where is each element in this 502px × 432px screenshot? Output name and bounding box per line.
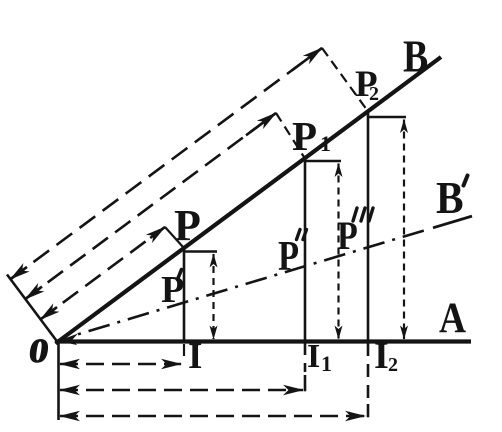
prime ticks of P''' xyxy=(353,208,357,221)
vertical I2 below-axis dashed extension xyxy=(367,343,370,402)
below-axis arrow O to I1 xyxy=(60,389,303,392)
vertical I1 extension corner xyxy=(304,375,307,391)
prime tick of P' xyxy=(178,270,182,280)
elbow to P2 xyxy=(322,48,367,110)
parallel dashed arrow L1 (O to P translate) xyxy=(40,227,165,320)
svg-text:I: I xyxy=(374,335,389,377)
vertical I2 extension corner xyxy=(367,404,370,417)
parallel dashed arrow L3 (O to P2 translate) xyxy=(10,48,322,279)
vertical measure arrow at I (double-headed dashed) xyxy=(212,254,214,339)
vertical measure arrow at I2 xyxy=(403,120,405,340)
svg-text:B: B xyxy=(403,31,428,81)
svg-text:I: I xyxy=(188,336,202,377)
parallel dashed arrow L2 (O to P1 translate) xyxy=(25,113,276,299)
svg-text:I: I xyxy=(307,338,320,375)
vertical I below-axis stub xyxy=(183,344,185,356)
svg-text:A: A xyxy=(439,294,466,342)
O vertical below axis xyxy=(57,343,60,420)
svg-text:2: 2 xyxy=(369,83,379,105)
line B' dash-dot xyxy=(78,229,430,335)
connector at P2 xyxy=(368,116,406,119)
svg-text:0: 0 xyxy=(26,332,51,370)
svg-text:P: P xyxy=(174,201,201,250)
perpendicular through O xyxy=(7,275,56,341)
vertical I2 xyxy=(367,111,370,342)
vertical I1 xyxy=(304,158,307,342)
elbow to P xyxy=(165,227,183,247)
below-axis arrow O to I xyxy=(60,363,181,366)
vertical I xyxy=(183,247,186,342)
arrowhead of B' at O xyxy=(58,334,78,346)
vertical measure arrow at I1 xyxy=(337,164,339,340)
elbow to P1 xyxy=(276,113,304,157)
svg-text:P: P xyxy=(292,113,317,159)
below-axis arrow O to I2 xyxy=(60,415,365,418)
connector at P1 xyxy=(305,160,341,163)
svg-text:B: B xyxy=(436,173,464,223)
solid tails of L3 xyxy=(10,267,27,279)
svg-text:1: 1 xyxy=(320,131,331,156)
vertical I1 below-axis dashed extension xyxy=(304,343,307,372)
solid tails of L1 xyxy=(40,307,57,319)
svg-text:2: 2 xyxy=(388,354,398,376)
connector at P xyxy=(184,250,217,253)
line B' final dash xyxy=(433,216,472,228)
axis line A xyxy=(55,339,471,343)
line B xyxy=(56,57,442,344)
prime tick of B' xyxy=(464,176,468,186)
svg-text:1: 1 xyxy=(321,351,332,376)
prime ticks of P'' xyxy=(297,230,301,240)
solid tails of L2 xyxy=(25,287,42,300)
